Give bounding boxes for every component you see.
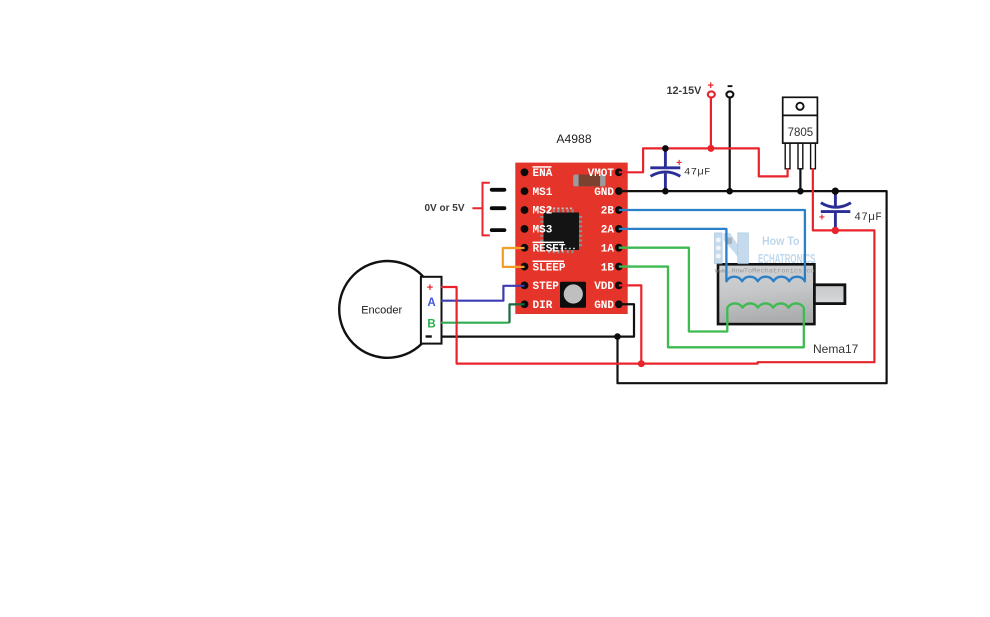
A4988 board — [515, 163, 627, 314]
svg-text:+: + — [819, 213, 825, 224]
terminal + 12-15V — [708, 91, 715, 97]
junction C2 bottom on 5V net — [832, 227, 839, 234]
wire minus terminal drop — [729, 98, 731, 191]
junction - terminal on GND rail — [726, 188, 733, 195]
junction C2 top on GND rail — [832, 188, 839, 195]
svg-text:GND: GND — [594, 187, 614, 199]
board pins right — [615, 168, 623, 308]
resistor (chip on board) — [573, 175, 605, 187]
pin RESET — [521, 244, 529, 252]
capacitor C1 47uF — [650, 148, 711, 190]
svg-text:DIR: DIR — [533, 300, 553, 312]
wire 1A green to coil to 1B — [619, 248, 804, 348]
7805 pin 1 IN — [785, 143, 790, 169]
wire 7805 gnd leg — [799, 168, 801, 191]
jumper bar MS3 — [490, 228, 507, 232]
wire orange RESET-SLEEP jumper — [503, 248, 525, 267]
pin 2A — [615, 225, 623, 233]
svg-text:+: + — [427, 282, 433, 294]
svg-text:Nema17: Nema17 — [813, 342, 859, 356]
junction encoder minus GND node — [614, 333, 621, 340]
watermark logo How To Mechatronics — [715, 233, 816, 275]
svg-text:RESET: RESET — [533, 243, 566, 255]
svg-text:GND: GND — [594, 300, 614, 312]
0V or 5V bracket — [424, 183, 506, 236]
svg-text:VMOT: VMOT — [588, 168, 615, 180]
7805 pin 3 OUT — [811, 143, 816, 169]
red selector bracket — [472, 183, 489, 236]
pin DIR — [521, 300, 529, 308]
C1 top lead — [664, 148, 667, 167]
wire 5V net — [441, 168, 874, 364]
svg-text:ENA: ENA — [533, 168, 553, 180]
svg-text:SLEEP: SLEEP — [533, 262, 566, 274]
junction + terminal on 12V net — [707, 145, 714, 152]
pin 1A — [615, 244, 623, 252]
wire STEP indigo to encoder A — [441, 286, 525, 301]
svg-text:Encoder: Encoder — [361, 305, 402, 317]
svg-text:B: B — [427, 319, 435, 331]
svg-text:A4988: A4988 — [556, 132, 591, 146]
pin VMOT — [615, 168, 623, 176]
junction 7805 GND leg on GND rail — [797, 188, 804, 195]
jumper bar MS2 — [490, 206, 507, 210]
svg-text:How To: How To — [762, 236, 800, 248]
encoder terminal box — [421, 277, 442, 344]
pin MS1 — [521, 187, 529, 195]
pin STEP — [521, 282, 529, 290]
wire DIR to encoder B dark segment — [510, 304, 525, 322]
svg-text:0V or 5V: 0V or 5V — [424, 203, 464, 214]
svg-text:1B: 1B — [601, 262, 615, 274]
encoder — [339, 261, 441, 358]
terminal - 12-15V — [726, 91, 733, 97]
svg-text:12-15V: 12-15V — [666, 85, 702, 97]
7805 body — [783, 97, 818, 143]
junction C1 top on 12V net — [662, 145, 669, 152]
IC U1 — [540, 208, 582, 253]
svg-text:+: + — [676, 158, 682, 169]
svg-text:7805: 7805 — [788, 127, 814, 139]
svg-text:2B: 2B — [601, 206, 615, 218]
pin ENA — [521, 168, 529, 176]
svg-text:MS1: MS1 — [533, 187, 553, 199]
svg-text:www.HowToMechatronics.co: www.HowToMechatronics.co — [715, 268, 815, 275]
C1 positive plate — [650, 166, 680, 169]
pin GND — [615, 187, 623, 195]
12-15V supply terminals — [666, 80, 733, 97]
svg-text:2A: 2A — [601, 225, 615, 237]
pin 1B — [615, 263, 623, 271]
svg-text:+: + — [707, 80, 713, 92]
minus sign supply — [728, 85, 733, 87]
C2 top lead — [834, 191, 837, 206]
pin SLEEP — [521, 263, 529, 271]
junction VDD on 5V net — [638, 360, 645, 367]
svg-text:VDD: VDD — [594, 281, 614, 293]
junction C1 bottom on GND rail — [662, 188, 669, 195]
pin MS3 — [521, 225, 529, 233]
7805 regulator — [783, 97, 818, 169]
wire GND rail loop — [618, 191, 887, 383]
svg-text:STEP: STEP — [533, 281, 560, 293]
svg-text:MS2: MS2 — [533, 206, 553, 218]
7805 pin 2 GND — [798, 143, 803, 169]
C2 bottom lead — [834, 212, 837, 230]
overline RESET — [533, 242, 565, 244]
pin GND2 — [615, 300, 623, 308]
wire VDD drop — [619, 285, 642, 363]
svg-text:A: A — [427, 297, 435, 309]
potentiometer — [560, 282, 586, 308]
svg-text:ECHATRONICS: ECHATRONICS — [758, 252, 816, 266]
wire VMOT 12V net — [619, 148, 788, 176]
encoder body circle — [339, 261, 436, 358]
motor M1 Nema17 body — [718, 264, 845, 324]
overline SLEEP — [533, 261, 565, 263]
overline ENA — [533, 166, 552, 168]
svg-text:MS3: MS3 — [533, 225, 553, 237]
pin labels — [533, 166, 615, 312]
jumper bar MS1 — [490, 188, 507, 192]
C1 negative plate — [651, 172, 681, 176]
C2 negative plate — [821, 203, 851, 208]
C2 positive plate — [821, 210, 851, 213]
svg-text:47µF: 47µF — [854, 212, 882, 224]
logo M icon — [715, 233, 749, 264]
wire encoder minus to GND pin — [441, 304, 634, 336]
svg-text:47µF: 47µF — [684, 167, 711, 179]
capacitor C2 47uF — [819, 191, 882, 229]
wire 2B blue to coil to 2A — [619, 210, 805, 281]
wire encoder B horizontal segment — [441, 322, 510, 324]
encoder pin label - — [426, 335, 432, 337]
motor shaft — [814, 285, 845, 304]
pin MS2 — [521, 206, 529, 214]
wire + terminal drop — [710, 98, 712, 148]
board pins left — [521, 168, 529, 308]
svg-text:1A: 1A — [601, 243, 615, 255]
C1 bottom lead — [664, 174, 667, 191]
pin 2B — [615, 206, 623, 214]
pin VDD — [615, 282, 623, 290]
